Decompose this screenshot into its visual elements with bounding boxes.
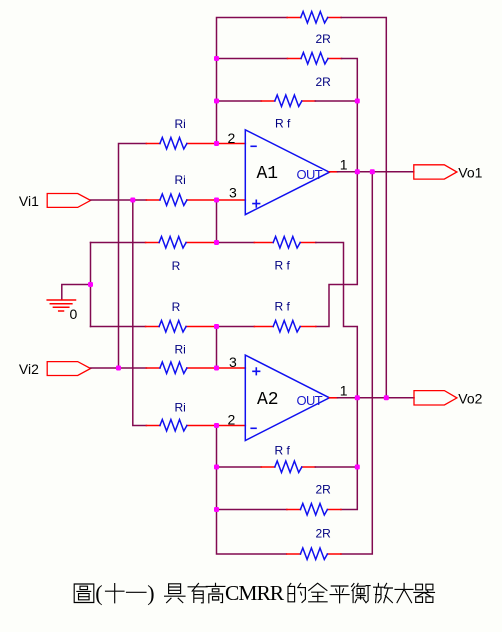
wire Vi2 row [91, 367, 147, 369]
svg-text:R f: R f [275, 259, 291, 273]
wire A2 pin2 red lead [217, 425, 245, 427]
caption char 衡 [352, 583, 371, 602]
svg-text:Ri: Ri [175, 117, 186, 131]
wire vertical Vi1 junction down to A2 pin2 row [133, 200, 147, 426]
node row3 right [355, 99, 360, 104]
wire vertical pin3A1 to row A [216, 200, 218, 243]
wire row1 right + right vertical down to Vo2 node [341, 18, 386, 398]
node row2-left [214, 56, 219, 61]
svg-text:OUT: OUT [297, 167, 323, 182]
svg-text:Vi2: Vi2 [19, 361, 39, 377]
svg-text:A1: A1 [257, 164, 279, 184]
caption char 高 [206, 583, 225, 603]
svg-text:R f: R f [275, 444, 291, 458]
resistor 2R (top row) [287, 12, 341, 24]
port Vi2 [47, 362, 90, 376]
ground symbol [47, 300, 75, 311]
wire Rf bottom row left [217, 466, 262, 468]
wire vertical row B to A2 pin3 row [216, 327, 218, 369]
node row A junction [214, 240, 219, 245]
wire row B left lead [91, 326, 146, 328]
node Vi1 junction [130, 198, 135, 203]
wire A1 pin2 branch: horizontal then down to Vi2 row [119, 144, 147, 369]
node Vo2 b [384, 395, 389, 400]
svg-text:R: R [172, 300, 181, 314]
caption char 有 [188, 583, 207, 602]
caption char 十 [106, 584, 125, 603]
node 2R bottom left [214, 507, 219, 512]
caption char 圖 [74, 584, 94, 603]
wire Vo2 row [338, 397, 415, 399]
wire 2R row b1 left [217, 509, 287, 511]
node Rf bottom left [214, 465, 219, 470]
wire A2 output red lead [329, 397, 337, 399]
op-amp A2 [245, 355, 329, 440]
resistor 2R (second row) [288, 53, 342, 65]
ground wire stub [62, 285, 91, 300]
node row B junction [214, 324, 219, 329]
svg-text:(: ( [95, 581, 102, 606]
node A1 pin3 [214, 198, 219, 203]
svg-text:R f: R f [275, 117, 291, 131]
svg-text:2R: 2R [316, 75, 332, 89]
svg-text:2R: 2R [316, 32, 332, 46]
op-amp A2 minus mark [251, 427, 256, 429]
caption char 大 [395, 584, 413, 603]
wire A2 pin2 bus down left side of bottom network [217, 426, 287, 555]
svg-text:3: 3 [229, 354, 237, 370]
svg-text:1: 1 [340, 157, 348, 173]
svg-text:Vo2: Vo2 [458, 391, 482, 407]
node row3-left [214, 99, 219, 104]
wire x357 bus from row3 down through Vo1 then crossover to row B right end [316, 101, 358, 327]
node Vo1 b [370, 169, 375, 174]
svg-text:): ) [147, 581, 154, 606]
svg-text:R: R [172, 259, 181, 273]
wire A1 pin3 red lead [217, 199, 245, 201]
svg-text:3: 3 [229, 185, 237, 201]
resistor Rf (row B) [254, 321, 315, 333]
node Rf bottom right [355, 465, 360, 470]
wire top bus left vertical and row1 left [217, 18, 288, 144]
wire row3 left [217, 100, 262, 102]
node A2 pin3 [214, 366, 219, 371]
wire row A right, down and jog to Vo2 bus [316, 243, 358, 398]
svg-text:2R: 2R [316, 483, 332, 497]
svg-text:Vi1: Vi1 [19, 193, 39, 209]
svg-text:CMRR: CMRR [225, 581, 285, 605]
wire row2 left [217, 58, 288, 60]
resistor R (row A) [146, 237, 216, 249]
node ground tap [88, 282, 93, 287]
resistor Ri (A2 pin 3) [146, 362, 215, 374]
node Vi2 junction [116, 366, 121, 371]
wire row A left lead [91, 242, 146, 244]
port Vo2 [414, 391, 457, 405]
node Vo1 a [355, 169, 360, 174]
caption char 一 [127, 591, 147, 593]
resistor Ri (A1 pin 2) [146, 138, 215, 150]
caption char 的 [288, 583, 305, 602]
resistor Ri (A2 pin 2) [146, 420, 215, 432]
resistor Ri (A1 pin 3) [146, 194, 215, 206]
node Vo2 a [355, 395, 360, 400]
wire row B middle [217, 326, 254, 328]
caption char 具 [165, 584, 185, 603]
wire row A left vertical (to row B) [90, 243, 92, 327]
svg-text:2R: 2R [316, 527, 332, 541]
node A1 pin2 [214, 141, 219, 146]
caption char 放 [374, 583, 393, 602]
port Vi1 [47, 194, 90, 208]
resistor Rf (third row) [261, 95, 315, 107]
wire A1 pin2 red lead [217, 143, 245, 145]
wire Vi1 row [91, 199, 147, 201]
op-amp A1 [245, 130, 329, 215]
wire A1 output red lead [329, 171, 337, 173]
wire A2 pin3 red lead [217, 367, 245, 369]
svg-text:2: 2 [228, 412, 236, 428]
wire Rf bottom row right [315, 466, 357, 468]
op-amp A1 minus mark [251, 145, 256, 147]
caption: 圖(十一) 具有高CMRR的全平衡放大器 [74, 583, 434, 603]
resistor R (row B) [146, 321, 216, 333]
svg-text:OUT: OUT [297, 393, 323, 408]
op-amp A1 plus mark [253, 200, 260, 207]
svg-text:Ri: Ri [175, 401, 186, 415]
svg-text:Vo1: Vo1 [458, 165, 482, 181]
op-amp A2 plus mark [253, 368, 260, 375]
svg-text:0: 0 [70, 306, 78, 322]
svg-text:A2: A2 [257, 390, 279, 410]
wire row A middle [217, 242, 254, 244]
wire x372 bus Vo1 down to bottom 2R row [341, 172, 372, 554]
resistor Rf (row A) [254, 237, 315, 249]
svg-text:1: 1 [340, 383, 348, 399]
svg-text:R f: R f [275, 300, 291, 314]
svg-text:Ri: Ri [175, 343, 186, 357]
wire x357 bus Vo2 down to 2R row [341, 398, 357, 510]
wire row2 right corner down [342, 59, 358, 102]
svg-text:2: 2 [228, 130, 236, 146]
caption char 全 [309, 583, 327, 601]
resistor 2R (bottom row 2) [287, 548, 341, 560]
resistor Rf (bottom feedback) [261, 461, 315, 473]
wire row3 right [315, 100, 357, 102]
wire Vo1 row [338, 171, 414, 173]
svg-text:Ri: Ri [175, 173, 186, 187]
resistor 2R (bottom row 1) [287, 504, 341, 516]
port Vo1 [414, 165, 457, 179]
caption char 平 [330, 586, 349, 603]
caption char 器 [414, 584, 435, 602]
node A2 pin2 [214, 423, 219, 428]
